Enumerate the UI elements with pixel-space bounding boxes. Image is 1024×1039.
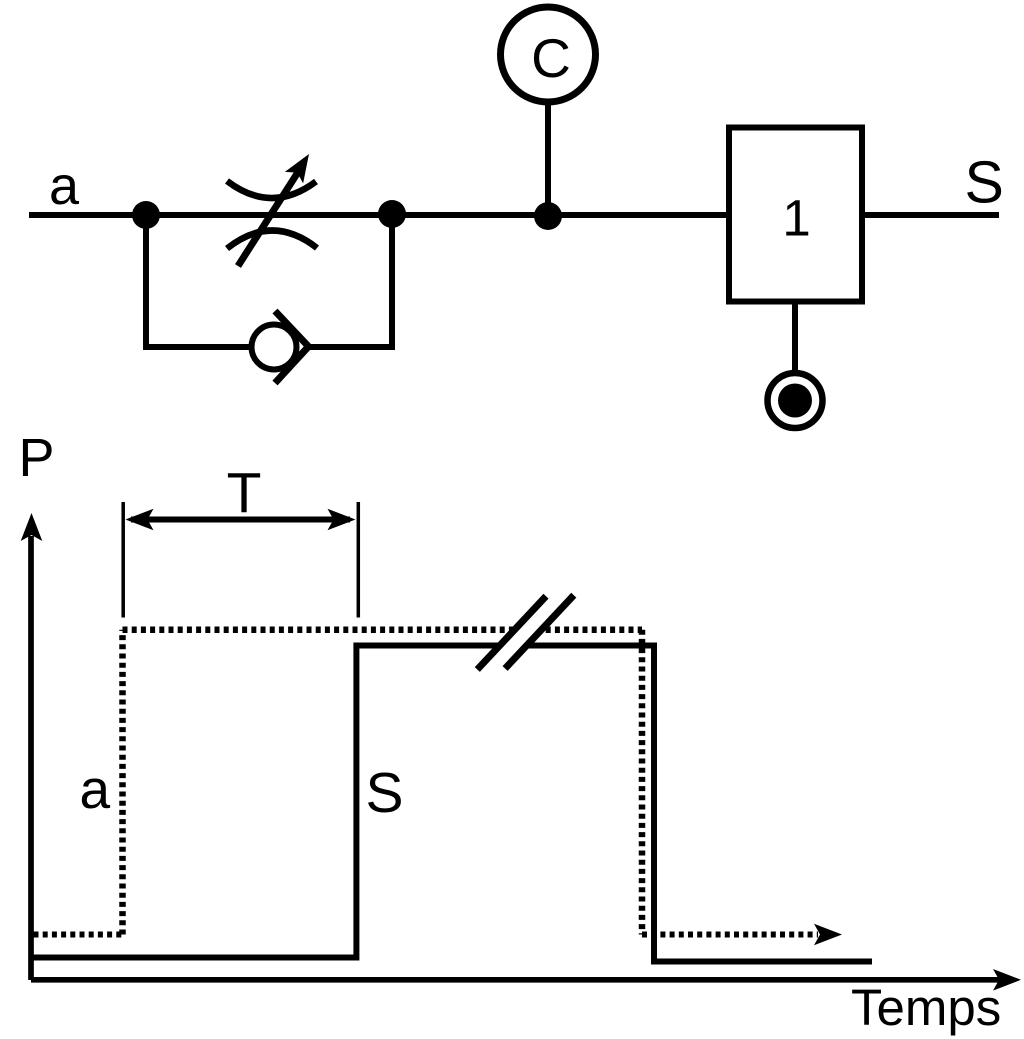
svg-text:P: P [19,428,55,488]
svg-text:a: a [49,156,80,216]
signal S solid trace [31,646,872,962]
svg-text:Temps: Temps [851,979,1001,1036]
wire: bypass loop (left vertical, bottom, right vertical) [146,215,392,347]
signal a dotted: low left [34,932,123,938]
junction node (right) [378,200,406,228]
T dimension right arrowhead [328,509,356,531]
svg-text:T: T [227,461,262,525]
svg-text:a: a [80,758,111,820]
wire: output line from box 1 to S [862,212,999,218]
signal a dotted: low right [642,932,818,938]
T dimension right tick [357,502,361,618]
check valve circle [252,325,297,370]
X axis line [31,977,1000,983]
break symbol white gap band [484,588,567,677]
T dimension left arrowhead [126,509,154,531]
signal a dotted: falling edge [639,630,646,935]
pressure source symbol outer circle [768,373,823,428]
break symbol slash 1 [477,596,546,669]
capacity C circle [501,7,596,102]
X axis arrowhead [993,969,1021,991]
junction node (center, under C) [534,202,562,230]
wire: exhaust drop line [792,302,798,375]
check valve seat V [275,311,309,383]
Y axis line [28,536,34,980]
restrictor adjustment arrow [238,148,318,266]
restrictor bottom arc [227,231,317,249]
signal a dotted: rising edge [119,630,126,935]
signal a dotted arrowhead [814,924,842,946]
svg-text:S: S [366,761,404,825]
svg-text:1: 1 [782,190,810,247]
Y axis arrowhead [21,513,43,541]
wire: main input line from a to box 1 [29,212,729,218]
pressure source symbol inner dot [778,384,812,418]
svg-text:S: S [965,150,1004,216]
restrictor top arc [227,181,316,198]
T dimension left tick [121,502,125,618]
svg-text:C: C [531,27,571,89]
relay box 1 [729,128,862,302]
junction node (left) [132,201,160,229]
break symbol slash 2 [505,595,574,668]
T dimension arrow shaft [131,517,350,523]
wire: capacity C drop line [545,102,551,215]
signal a dotted: high level [123,626,643,633]
